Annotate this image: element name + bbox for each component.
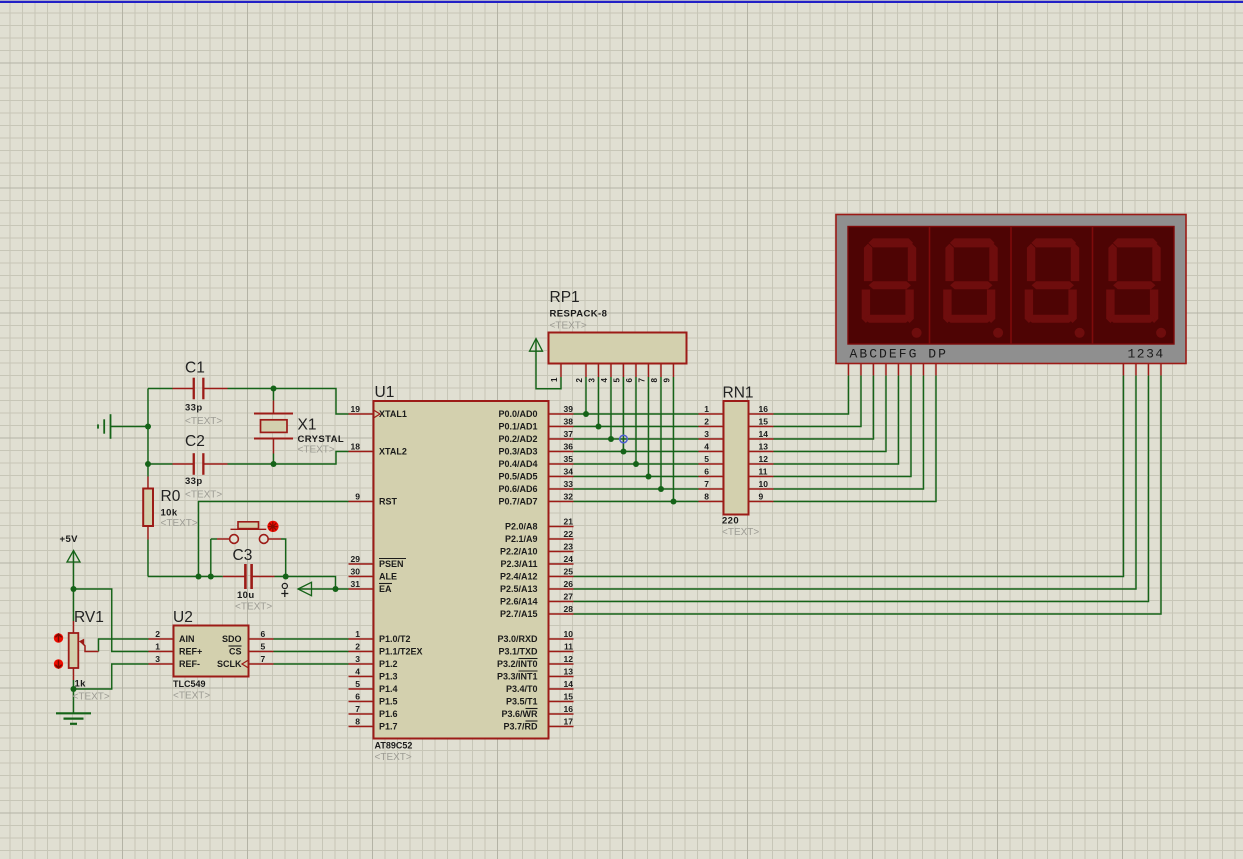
svg-text:3: 3 [155, 654, 160, 664]
svg-text:24: 24 [564, 554, 574, 564]
svg-text:R0: R0 [161, 488, 181, 505]
svg-text:P0.2/AD2: P0.2/AD2 [498, 434, 537, 444]
resistor network RN1 body [724, 401, 749, 515]
svg-text:6: 6 [625, 378, 634, 383]
svg-text:36: 36 [564, 441, 574, 451]
RP1 pin 2 [585, 364, 587, 378]
RN1 pin 16 [749, 413, 774, 415]
RN1 pin 5 [699, 463, 724, 465]
svg-text:15: 15 [564, 691, 574, 701]
junction RST vertical [196, 574, 202, 580]
svg-text:4: 4 [704, 441, 709, 451]
svg-text:C3: C3 [233, 547, 253, 564]
wire R0 bottom to reset row [147, 540, 149, 577]
junction RP1 pin 5 on P0.3 net [621, 449, 627, 455]
wire RV1 top [73, 589, 75, 621]
push button interactive marker [267, 521, 278, 532]
svg-text:P1.1/T2EX: P1.1/T2EX [379, 647, 423, 657]
display digit 1 segments [862, 238, 922, 337]
capacitor C2 33p [173, 463, 194, 465]
wire RP1 pin 4 to P0.2 net [610, 377, 612, 439]
U1 pin 13 P3.3/INT1 [549, 676, 574, 678]
svg-text:<TEXT>: <TEXT> [73, 692, 110, 703]
svg-text:P0.1/AD1: P0.1/AD1 [498, 422, 537, 432]
wire RP1 pin 7 to P0.5 net [648, 377, 650, 477]
svg-text:13: 13 [564, 666, 574, 676]
svg-text:RN1: RN1 [723, 385, 754, 402]
wire RN1 pin 12 to display segment E [774, 376, 899, 465]
junction crystal bottom [271, 461, 277, 467]
svg-text:9: 9 [355, 491, 360, 501]
U1 pin 28 P2.7/A15 [549, 613, 574, 615]
push button right pin [268, 538, 281, 540]
svg-text:CS: CS [229, 647, 242, 657]
U1 pin 27 P2.6/A14 [549, 601, 574, 603]
svg-text:P0.7/AD7: P0.7/AD7 [498, 497, 537, 507]
U1 pin 16 P3.6/WR [549, 713, 574, 715]
wire U2 SCLK to U1 P1.2 [274, 663, 349, 665]
svg-text:4: 4 [355, 666, 360, 676]
push button contacts [230, 535, 239, 544]
display pin digit 1 [1123, 364, 1125, 376]
RN1 pin 11 [749, 476, 774, 478]
U2 pin 6 SDO [249, 638, 274, 640]
svg-text:+5V: +5V [60, 534, 79, 545]
U1 pin 38 P0.1/AD1 [549, 426, 574, 428]
wire RST [199, 502, 349, 577]
svg-text:<TEXT>: <TEXT> [235, 602, 272, 613]
wire RN1 pin 16 to display segment A [774, 376, 849, 415]
U1 pin 1 P1.0/T2 [349, 638, 374, 640]
svg-text:5: 5 [261, 641, 266, 651]
U2 pin 7 SCLK [249, 663, 274, 665]
U1 pin 11 P3.1/TXD [549, 651, 574, 653]
svg-text:P1.3: P1.3 [379, 672, 398, 682]
U2 pin 5 CS [249, 651, 274, 653]
svg-text:5: 5 [704, 454, 709, 464]
RN1 pin 2 [699, 426, 724, 428]
svg-text:9: 9 [663, 378, 672, 383]
svg-text:2: 2 [355, 641, 360, 651]
junction RP1 pin 9 on P0.7 net [671, 499, 677, 505]
power terminal at EA [298, 582, 312, 595]
svg-text:25: 25 [564, 566, 574, 576]
junction +5V branch [71, 586, 77, 592]
svg-text:3: 3 [588, 378, 597, 383]
junction RV1 ground [71, 686, 77, 692]
svg-text:37: 37 [564, 429, 574, 439]
junction RP1 pin 4 on P0.2 net [608, 436, 614, 442]
wire P0.5 to RN1 pin 6 [574, 476, 699, 478]
svg-text:16: 16 [564, 704, 574, 714]
svg-text:P1.4: P1.4 [379, 684, 398, 694]
svg-text:TLC549: TLC549 [173, 679, 206, 689]
U1 pin 35 P0.4/AD4 [549, 463, 574, 465]
U1 pin 19 XTAL1 [349, 413, 374, 415]
wire RN1 pin 14 to display segment C [774, 376, 874, 440]
svg-text:<TEXT>: <TEXT> [185, 416, 222, 427]
U1 pin 34 P0.5/AD5 [549, 476, 574, 478]
svg-text:P0.6/AD6: P0.6/AD6 [498, 484, 537, 494]
svg-text:1: 1 [550, 377, 559, 382]
svg-text:7: 7 [355, 704, 360, 714]
svg-text:P3.4/T0: P3.4/T0 [506, 684, 538, 694]
U2 pin 3 REF- [149, 663, 174, 665]
svg-text:P3.3/INT1: P3.3/INT1 [497, 672, 538, 682]
U1 pin 17 P3.7/RD [549, 726, 574, 728]
RV1 wiper [81, 642, 99, 652]
RP1 pin 3 [598, 364, 600, 378]
display pin C [873, 364, 875, 376]
RP1 pin 4 [610, 364, 612, 378]
wire button right leg [281, 539, 286, 577]
svg-text:RP1: RP1 [550, 289, 580, 306]
svg-text:5: 5 [355, 679, 360, 689]
junction C2 row [145, 461, 151, 467]
svg-text:SCLK: SCLK [217, 659, 242, 669]
svg-text:8: 8 [355, 716, 360, 726]
svg-text:30: 30 [351, 566, 361, 576]
svg-text:X1: X1 [298, 417, 317, 434]
svg-text:P3.7/RD: P3.7/RD [503, 722, 538, 732]
U1 pin 4 P1.3 [349, 676, 374, 678]
wire EA power arrow [299, 588, 349, 590]
crystal X1 pins [273, 401, 275, 414]
U1 pin 33 P0.6/AD6 [549, 488, 574, 490]
svg-text:U1: U1 [375, 384, 395, 401]
U1 pin 30 ALE [349, 576, 374, 578]
svg-text:C1: C1 [185, 360, 205, 377]
svg-text:10k: 10k [161, 508, 178, 519]
push button actuator [231, 528, 267, 530]
wire P0.6 to RN1 pin 7 [574, 488, 699, 490]
RN1 pin 7 [699, 488, 724, 490]
svg-text:3: 3 [355, 654, 360, 664]
wire button left leg [210, 539, 212, 577]
svg-text:U2: U2 [173, 609, 193, 626]
svg-text:<TEXT>: <TEXT> [161, 518, 198, 529]
display digit 2 segments [943, 238, 1003, 337]
RN1 pin 4 [699, 451, 724, 453]
U1 pin 10 P3.0/RXD [549, 638, 574, 640]
svg-text:P3.0/RXD: P3.0/RXD [497, 634, 538, 644]
svg-text:12: 12 [759, 454, 769, 464]
svg-text:RV1: RV1 [74, 609, 104, 626]
svg-text:1: 1 [704, 404, 709, 414]
display pin digit 2 [1135, 364, 1137, 376]
U1 pin 14 P3.4/T0 [549, 688, 574, 690]
junction crystal top [271, 386, 277, 392]
RN1 pin 13 [749, 451, 774, 453]
svg-text:10: 10 [564, 629, 574, 639]
sheet top border (blue) [0, 0, 1243, 1]
svg-text:35: 35 [564, 454, 574, 464]
svg-text:23: 23 [564, 541, 574, 551]
wire C1 row from left vertical to XTAL1 corner [148, 388, 173, 390]
C3 polarity mark [282, 583, 287, 588]
junction RP1 pin 3 on P0.1 net [596, 424, 602, 430]
svg-text:10u: 10u [237, 590, 255, 601]
respack RP1 body [549, 333, 687, 364]
RN1 pin 14 [749, 438, 774, 440]
svg-text:4: 4 [600, 378, 609, 383]
RN1 pin 15 [749, 426, 774, 428]
U1 pin 21 P2.0/A8 [549, 526, 574, 528]
wire P2.6 to display digit 3 [574, 376, 1149, 602]
svg-text:P0.4/AD4: P0.4/AD4 [498, 459, 537, 469]
wire P0.2 to RN1 pin 3 [574, 438, 699, 440]
svg-text:9: 9 [759, 491, 764, 501]
wire RP1 pin 5 to P0.3 net [623, 377, 625, 452]
U1 pin 18 XTAL2 [349, 451, 374, 453]
svg-text:38: 38 [564, 416, 574, 426]
svg-text:1: 1 [155, 641, 160, 651]
svg-text:31: 31 [351, 579, 361, 589]
wire RP1 pin 6 to P0.4 net [635, 377, 637, 464]
wire P0.7 to RN1 pin 8 [574, 501, 699, 503]
svg-text:REF+: REF+ [179, 647, 202, 657]
svg-text:21: 21 [564, 516, 574, 526]
wire U2 CS to U1 P1.1 [274, 651, 349, 653]
U1 pin 22 P2.1/A9 [549, 538, 574, 540]
svg-text:ABCDEFG DP: ABCDEFG DP [850, 347, 949, 362]
U1 pin 9 RST [349, 501, 374, 503]
svg-text:<TEXT>: <TEXT> [722, 527, 759, 538]
power +5V arrow [67, 551, 80, 563]
RV1 decrement button [54, 659, 63, 668]
junction RP1 pin 6 on P0.4 net [633, 461, 639, 467]
wire RP1 pin 9 to P0.7 net [673, 377, 675, 502]
U1 pin 12 P3.2/INT0 [549, 663, 574, 665]
U1 pin 31 EA [349, 588, 374, 590]
adc U2 TLC549 body [174, 626, 249, 677]
U1 pin 24 P2.3/A11 [549, 563, 574, 565]
svg-text:P0.5/AD5: P0.5/AD5 [498, 472, 537, 482]
svg-text:13: 13 [759, 441, 769, 451]
display pin DP [935, 364, 937, 376]
svg-text:3: 3 [704, 429, 709, 439]
wire P0.1 to RN1 pin 2 [574, 426, 699, 428]
svg-text:P2.5/A13: P2.5/A13 [500, 584, 538, 594]
U1 pin 32 P0.7/AD7 [549, 501, 574, 503]
junction RP1 pin 2 on P0.0 net [583, 411, 589, 417]
svg-text:7: 7 [704, 479, 709, 489]
svg-text:AT89C52: AT89C52 [375, 741, 413, 751]
svg-text:CRYSTAL: CRYSTAL [298, 434, 345, 445]
svg-text:P2.7/A15: P2.7/A15 [500, 609, 538, 619]
display pin G [923, 364, 925, 376]
wire RN1 pin 13 to display segment D [774, 376, 887, 452]
U2 pin 2 AIN [149, 638, 174, 640]
wire P2.5 to display digit 2 [574, 376, 1137, 590]
wire P2.4 to display digit 1 [574, 376, 1124, 577]
junction RP1 pin 8 on P0.6 net [658, 486, 664, 492]
wire +5V to RV1 junction [73, 552, 75, 590]
crystal X1 body [254, 413, 293, 415]
RN1 pin 12 [749, 463, 774, 465]
svg-text:EA: EA [379, 584, 392, 594]
svg-text:2: 2 [155, 629, 160, 639]
svg-text:XTAL1: XTAL1 [379, 409, 407, 419]
svg-text:19: 19 [351, 404, 361, 414]
svg-text:P0.3/AD3: P0.3/AD3 [498, 447, 537, 457]
svg-text:PSEN: PSEN [379, 559, 404, 569]
wire RP1 pin 2 to P0.0 net [585, 377, 587, 414]
wire reset row (R0 to EA corner) [148, 576, 223, 578]
junction RP1 pin 7 on P0.5 net [646, 474, 652, 480]
wire RP1 pin 8 to P0.6 net [660, 377, 662, 489]
svg-text:11: 11 [759, 466, 768, 476]
U1 pin 3 P1.2 [349, 663, 374, 665]
svg-text:P2.3/A11: P2.3/A11 [500, 559, 537, 569]
svg-text:7: 7 [261, 654, 266, 664]
svg-text:18: 18 [351, 441, 361, 451]
wire P0.4 to RN1 pin 5 [574, 463, 699, 465]
RN1 pin 3 [699, 438, 724, 440]
svg-text:P2.1/A9: P2.1/A9 [505, 534, 538, 544]
svg-text:14: 14 [564, 679, 574, 689]
wire C2 row to XTAL2 corner [148, 463, 173, 465]
svg-text:<TEXT>: <TEXT> [173, 691, 210, 702]
ground below RV1 [56, 712, 91, 714]
display digit separator 3 [1092, 227, 1094, 345]
wire P0.3 to RN1 pin 4 [574, 451, 699, 453]
svg-text:33: 33 [564, 479, 574, 489]
svg-text:29: 29 [351, 554, 361, 564]
svg-text:<TEXT>: <TEXT> [185, 490, 222, 501]
wire U2 SDO to U1 P1.0 [274, 638, 349, 640]
RN1 pin 6 [699, 476, 724, 478]
wire crystal top stub [273, 389, 275, 401]
svg-text:XTAL2: XTAL2 [379, 447, 407, 457]
U1 pin 29 PSEN [349, 563, 374, 565]
svg-text:14: 14 [759, 429, 769, 439]
display pin digit 4 [1160, 364, 1162, 376]
RV1 increment button [54, 633, 63, 642]
svg-text:10: 10 [759, 479, 769, 489]
display digit separator 1 [929, 227, 931, 345]
U1 pin 23 P2.2/A10 [549, 551, 574, 553]
svg-text:P1.0/T2: P1.0/T2 [379, 634, 411, 644]
U1 pin 7 P1.6 [349, 713, 374, 715]
display digit 4 segments [1106, 238, 1166, 337]
wire REF- to ground branch [74, 664, 149, 689]
svg-text:P3.2/INT0: P3.2/INT0 [497, 659, 538, 669]
RP1 pin 8 [660, 364, 662, 378]
RN1 pin 10 [749, 488, 774, 490]
U1 pin 39 P0.0/AD0 [549, 413, 574, 415]
svg-text:<TEXT>: <TEXT> [375, 752, 412, 763]
wire +5V branch to REF+ [74, 589, 149, 652]
display pin B [860, 364, 862, 376]
svg-text:ALE: ALE [379, 572, 397, 582]
wire RN1 pin 9 to display segment DP [774, 376, 937, 502]
potentiometer RV1 body [73, 621, 75, 633]
capacitor C1 33p [173, 388, 194, 390]
svg-text:22: 22 [564, 529, 574, 539]
svg-text:<TEXT>: <TEXT> [298, 445, 335, 456]
U1 pin 2 P1.1/T2EX [349, 651, 374, 653]
svg-text:REF-: REF- [179, 659, 200, 669]
ground left [110, 414, 112, 439]
svg-text:28: 28 [564, 604, 574, 614]
wire RN1 pin 10 to display segment G [774, 376, 924, 490]
svg-text:P2.4/A12: P2.4/A12 [500, 572, 538, 582]
RP1 pin 7 [648, 364, 650, 378]
svg-text:RST: RST [379, 497, 398, 507]
wire P2.7 to display digit 4 [574, 376, 1162, 615]
U1 pin 6 P1.5 [349, 701, 374, 703]
svg-text:220: 220 [722, 516, 739, 527]
RN1 pin 8 [699, 501, 724, 503]
svg-text:SDO: SDO [222, 634, 242, 644]
junction button left [208, 574, 214, 580]
RP1 power arrow [530, 339, 543, 352]
svg-text:1234: 1234 [1128, 347, 1165, 362]
display digit separator 2 [1010, 227, 1012, 345]
display digit 3 segments [1025, 238, 1085, 337]
U1 pin 5 P1.4 [349, 688, 374, 690]
svg-text:<TEXT>: <TEXT> [550, 321, 587, 332]
wire RP1 pin 3 to P0.1 net [598, 377, 600, 427]
U1 pin 8 P1.7 [349, 726, 374, 728]
svg-text:RESPACK-8: RESPACK-8 [550, 309, 608, 320]
RN1 pin 9 [749, 501, 774, 503]
U1 pin 26 P2.5/A13 [549, 588, 574, 590]
resistor R0 10k [147, 477, 149, 489]
svg-text:7: 7 [638, 378, 647, 383]
svg-text:6: 6 [704, 466, 709, 476]
wire crystal bottom stub [273, 454, 275, 465]
svg-text:P1.7: P1.7 [379, 722, 398, 732]
svg-text:P3.5/T1: P3.5/T1 [506, 697, 538, 707]
svg-text:17: 17 [564, 716, 574, 726]
U2 pin 1 REF+ [149, 651, 174, 653]
mcu U1 AT89C52 body [374, 401, 549, 739]
svg-text:34: 34 [564, 466, 574, 476]
svg-text:P1.6: P1.6 [379, 709, 398, 719]
svg-text:39: 39 [564, 404, 574, 414]
svg-text:1k: 1k [75, 679, 87, 690]
wire P0.0 to RN1 pin 1 [574, 413, 699, 415]
svg-text:2: 2 [704, 416, 709, 426]
blue crossing marker [620, 435, 628, 443]
display pin D [885, 364, 887, 376]
svg-text:15: 15 [759, 416, 769, 426]
svg-text:16: 16 [759, 404, 769, 414]
svg-text:33p: 33p [185, 403, 203, 414]
wire RV1 bottom to ground [73, 680, 75, 713]
RP1 pin 5 [623, 364, 625, 378]
display inner area [848, 227, 1174, 345]
svg-text:AIN: AIN [179, 634, 195, 644]
display pin E [898, 364, 900, 376]
wire RN1 pin 15 to display segment B [774, 376, 862, 427]
RP1 pin 6 [635, 364, 637, 378]
RP1 pin 1 [560, 364, 562, 378]
svg-text:C2: C2 [185, 433, 205, 450]
svg-text:5: 5 [613, 378, 622, 383]
svg-text:33p: 33p [185, 476, 203, 487]
svg-text:8: 8 [650, 378, 659, 383]
svg-text:P2.6/A14: P2.6/A14 [500, 597, 538, 607]
svg-text:26: 26 [564, 579, 574, 589]
wire left vertical C1-C2-R0 [147, 389, 149, 477]
svg-text:6: 6 [355, 691, 360, 701]
svg-text:12: 12 [564, 654, 574, 664]
svg-text:P3.6/WR: P3.6/WR [501, 709, 538, 719]
wire RP1 pin1 to power arrow [536, 340, 561, 389]
